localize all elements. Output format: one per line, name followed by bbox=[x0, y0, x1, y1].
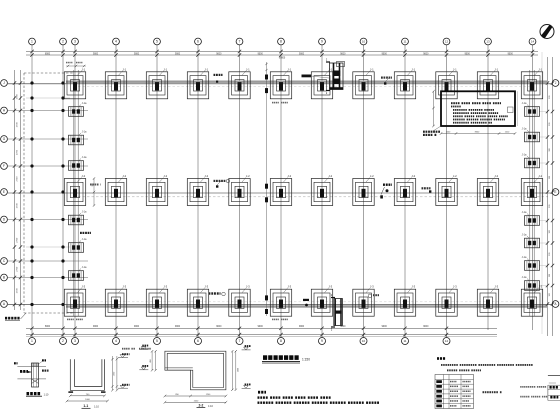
footing DJ-1 axis 7 row J bbox=[229, 67, 250, 99]
svg-text:9000: 9000 bbox=[216, 326, 222, 328]
wall line left outer bbox=[73, 70, 75, 316]
svg-text:J-2: J-2 bbox=[122, 174, 126, 178]
footing DJ-1 axis 9 row J bbox=[311, 67, 332, 99]
dimension line left bbox=[13, 70, 22, 310]
svg-text:J-1a: J-1a bbox=[82, 131, 87, 134]
svg-text:2700: 2700 bbox=[16, 237, 18, 243]
footing DJ-2 axis 4 row E bbox=[105, 174, 126, 206]
svg-text:1:10: 1:10 bbox=[94, 406, 99, 409]
footing DJ-3 axis 10 row A bbox=[353, 285, 374, 317]
svg-text:1: 1 bbox=[31, 40, 33, 44]
footing DJ-1 axis 10 row J bbox=[353, 67, 374, 99]
grid bubble axis 9 top bbox=[319, 38, 326, 45]
svg-text:2: 2 bbox=[62, 40, 64, 44]
svg-text:5: 5 bbox=[156, 40, 158, 44]
svg-text:10: 10 bbox=[362, 339, 366, 343]
svg-text:E: E bbox=[554, 190, 556, 194]
grid bubble axis 10 top bbox=[360, 38, 367, 45]
svg-text:99000: 99000 bbox=[279, 58, 286, 60]
grid line axis 8 bbox=[280, 45, 282, 337]
svg-text:J-1: J-1 bbox=[453, 67, 457, 71]
svg-text:4: 4 bbox=[115, 40, 117, 44]
grid line axis 10 bbox=[363, 45, 365, 337]
grid bubble axis 6 bottom bbox=[195, 335, 202, 345]
svg-text:9000: 9000 bbox=[382, 53, 388, 55]
svg-text:9000: 9000 bbox=[175, 53, 181, 55]
svg-text:9000: 9000 bbox=[382, 326, 388, 328]
svg-text:3: 3 bbox=[74, 40, 76, 44]
wall footing left 4 bbox=[69, 211, 88, 225]
svg-text:J-3: J-3 bbox=[328, 285, 332, 289]
footing DJ-3 axis 7 row A bbox=[229, 285, 250, 317]
svg-text:J-1a: J-1a bbox=[82, 156, 87, 159]
grid bubble axis 7 top bbox=[236, 38, 243, 45]
svg-text:J-1a: J-1a bbox=[522, 256, 527, 259]
svg-text:2700: 2700 bbox=[17, 176, 19, 182]
footing DJ-2 axis 5 row E bbox=[146, 174, 167, 206]
svg-text:J-1: J-1 bbox=[494, 67, 498, 71]
beam label row A near axis 8 left bbox=[209, 292, 226, 296]
annex dashed outline vertical bbox=[23, 73, 25, 313]
svg-text:J-1: J-1 bbox=[246, 67, 250, 71]
svg-text:J-1: J-1 bbox=[81, 67, 85, 71]
footing DJ-2 axis 9 row E bbox=[311, 174, 332, 206]
wall footing right 1 bbox=[522, 102, 540, 116]
beam label row J near axis 7 bbox=[214, 74, 223, 83]
svg-text:9: 9 bbox=[321, 40, 323, 44]
svg-text:2700: 2700 bbox=[17, 94, 19, 100]
notes block right bbox=[437, 357, 533, 371]
svg-text:J-3: J-3 bbox=[538, 285, 542, 289]
annex row line y219.5 bbox=[8, 219, 88, 221]
wall footing right 2 bbox=[522, 128, 540, 142]
svg-text:J-1: J-1 bbox=[287, 67, 291, 71]
svg-text:1:150: 1:150 bbox=[302, 358, 310, 362]
grid bubble axis 11 bottom bbox=[402, 335, 409, 345]
grid bubble axis 8 bottom bbox=[278, 335, 285, 345]
grid line axis 14 bbox=[532, 45, 534, 330]
equipment foundation leader note bbox=[423, 126, 441, 136]
grid line axis 2 bbox=[62, 45, 64, 337]
svg-text:9000: 9000 bbox=[216, 53, 222, 55]
svg-text:J-1: J-1 bbox=[328, 67, 332, 71]
svg-text:1: 1 bbox=[31, 339, 33, 343]
svg-text:9000: 9000 bbox=[299, 53, 305, 55]
svg-text:J-1: J-1 bbox=[163, 67, 167, 71]
svg-text:300: 300 bbox=[549, 123, 551, 126]
svg-text:J-1: J-1 bbox=[370, 67, 374, 71]
annex row line y139 bbox=[8, 138, 88, 140]
grid line axis 1 bbox=[31, 45, 33, 337]
footing DJ-2 axis 12 row E bbox=[436, 174, 457, 206]
svg-text:J-3: J-3 bbox=[246, 285, 250, 289]
svg-text:J-1a: J-1a bbox=[82, 102, 87, 105]
tie beam dashes row A bbox=[78, 301, 530, 303]
svg-text:13: 13 bbox=[486, 40, 490, 44]
grid bubble axis 12 bottom bbox=[443, 335, 450, 345]
footing DJ-1 axis 13 row J bbox=[477, 67, 498, 99]
grid bubble row D left bbox=[1, 216, 8, 223]
svg-text:12: 12 bbox=[445, 339, 449, 343]
grid bubble axis 1 top bbox=[29, 38, 36, 45]
svg-text:B: B bbox=[3, 276, 5, 280]
svg-text:2700: 2700 bbox=[17, 288, 19, 294]
wall band row A bbox=[66, 305, 547, 307]
beam label row E near axis 8 bbox=[214, 179, 230, 188]
svg-text:J-1: J-1 bbox=[411, 67, 415, 71]
grid bubble axis 5 bottom bbox=[154, 335, 161, 345]
footing DJ-2 axis 14 row E bbox=[521, 174, 542, 206]
svg-text:J-1a: J-1a bbox=[522, 154, 527, 157]
svg-text:9000: 9000 bbox=[134, 326, 140, 328]
wall line right inner bbox=[533, 70, 535, 316]
svg-text:J-1a: J-1a bbox=[522, 211, 527, 214]
svg-text:9000: 9000 bbox=[508, 53, 514, 55]
footing DJ-1 axis 14 row J bbox=[521, 67, 542, 99]
equipment foundation dimensions bbox=[432, 90, 517, 135]
anchor bolt detail title bbox=[26, 392, 49, 396]
apron leader bbox=[21, 313, 27, 319]
svg-text:J-1a: J-1a bbox=[82, 266, 87, 269]
grid bubble axis 4 top bbox=[113, 38, 120, 45]
footing DJ-3 axis 6 row A bbox=[187, 285, 208, 317]
svg-text:J-2: J-2 bbox=[538, 174, 542, 178]
grid bubble axis 7 bottom bbox=[236, 335, 243, 345]
svg-text:2700: 2700 bbox=[17, 149, 19, 155]
svg-text:8: 8 bbox=[280, 40, 282, 44]
svg-text:J-3: J-3 bbox=[370, 285, 374, 289]
footing DJ-2 axis 6 row E bbox=[187, 174, 208, 206]
grid line axis 11 bbox=[404, 45, 406, 337]
right overhang extension line bbox=[541, 52, 543, 334]
grid bubble row J right bbox=[552, 80, 559, 87]
svg-text:J-3: J-3 bbox=[411, 285, 415, 289]
svg-text:J-2: J-2 bbox=[411, 174, 415, 178]
footing DJ-3 axis 13 row A bbox=[477, 285, 498, 317]
grid bubble row E left bbox=[1, 189, 8, 196]
footing DJ-2 axis 8 row E bbox=[270, 174, 291, 206]
section detail 2-2 title bbox=[197, 403, 214, 408]
wall footing right 7 bbox=[522, 276, 540, 290]
dimension line bottom bbox=[26, 327, 497, 337]
svg-text:9000: 9000 bbox=[299, 326, 305, 328]
grid line axis 13 bbox=[487, 45, 489, 330]
grid line axis 7 bbox=[239, 45, 241, 337]
main title foundation plan bbox=[262, 355, 310, 363]
svg-text:300: 300 bbox=[549, 148, 551, 151]
wall footing left 2 bbox=[69, 131, 88, 145]
annex dashed outline bottom bbox=[24, 312, 74, 314]
svg-text:J-2: J-2 bbox=[163, 174, 167, 178]
dimension text right bbox=[549, 96, 551, 297]
svg-text:J-1: J-1 bbox=[122, 67, 126, 71]
grid bubble axis 2 bottom bbox=[60, 335, 67, 345]
svg-text:450: 450 bbox=[150, 359, 152, 362]
svg-text:14: 14 bbox=[531, 40, 535, 44]
beam label row J near axis 10 bbox=[381, 77, 392, 85]
footing DJ-1 axis 11 row J bbox=[394, 67, 415, 99]
grid bubble axis 9 bottom bbox=[319, 335, 326, 345]
svg-text:J-1a: J-1a bbox=[522, 234, 527, 237]
wall footing left 6 bbox=[69, 266, 88, 280]
svg-text:J-3: J-3 bbox=[163, 285, 167, 289]
footing DJ-3 axis 12 row A bbox=[436, 285, 457, 317]
anchor bolt detail bbox=[14, 359, 49, 387]
svg-text:300: 300 bbox=[549, 253, 551, 256]
footing DJ-3 axis 9 row A bbox=[311, 285, 332, 317]
dim text below footing A3 bbox=[67, 319, 83, 321]
grid line axis 12 bbox=[446, 45, 448, 337]
svg-text:9000: 9000 bbox=[258, 53, 264, 55]
title block fragment bbox=[520, 375, 560, 400]
footing DJ-1 axis 4 row J bbox=[105, 67, 126, 99]
svg-text:1:10: 1:10 bbox=[44, 393, 49, 396]
svg-text:6: 6 bbox=[197, 339, 199, 343]
footing DJ-2 axis 7 row E bbox=[229, 174, 250, 206]
footing axis3 dim marks bbox=[66, 62, 86, 67]
grid bubble axis 8 top bbox=[278, 38, 285, 45]
wall footing right 5 bbox=[522, 234, 540, 248]
footing DJ-3 axis 4 row A bbox=[105, 285, 126, 317]
svg-text:J-1a: J-1a bbox=[82, 211, 87, 214]
dimension line right bbox=[546, 57, 554, 336]
svg-text:9000: 9000 bbox=[175, 326, 181, 328]
svg-text:9000: 9000 bbox=[93, 326, 99, 328]
pit section bottom (axis 8) bbox=[331, 294, 343, 332]
grid bubble row G left bbox=[1, 136, 8, 143]
footing DJ-3 axis 5 row A bbox=[146, 285, 167, 317]
svg-text:F: F bbox=[3, 164, 5, 168]
footing DJ-1 axis 3 row J bbox=[64, 67, 85, 99]
svg-text:9000: 9000 bbox=[465, 53, 471, 55]
wall footing left 1 bbox=[69, 102, 88, 116]
section detail 1-1 bbox=[66, 353, 130, 402]
grid bubble row C left bbox=[1, 258, 8, 265]
svg-text:6: 6 bbox=[197, 40, 199, 44]
svg-text:10: 10 bbox=[362, 40, 366, 44]
svg-text:2700: 2700 bbox=[16, 266, 18, 272]
svg-text:J-3: J-3 bbox=[122, 285, 126, 289]
svg-text:9000: 9000 bbox=[423, 326, 429, 328]
svg-text:8000: 8000 bbox=[45, 53, 51, 55]
beam line row E bbox=[8, 192, 552, 194]
footing E3 side dim bbox=[92, 177, 95, 206]
grid bubble axis 4 bottom bbox=[113, 335, 120, 345]
pit label bottom bbox=[303, 299, 309, 307]
equipment foundation outline and notes bbox=[441, 91, 515, 126]
wall footing right 3 bbox=[522, 154, 540, 168]
svg-text:2700: 2700 bbox=[17, 203, 19, 209]
svg-text:J-1a: J-1a bbox=[522, 276, 527, 279]
svg-text:300: 300 bbox=[549, 176, 551, 179]
grid bubble row B left bbox=[1, 274, 8, 281]
footing DJ-3 axis 3 row A bbox=[64, 285, 85, 317]
annex row line y261 bbox=[8, 260, 88, 262]
svg-text:J-1a: J-1a bbox=[522, 128, 527, 131]
grid bubble axis 1 bottom bbox=[29, 335, 36, 345]
grid bubble axis 3 bottom bbox=[72, 335, 79, 345]
svg-text:4: 4 bbox=[115, 339, 117, 343]
extension lines right bbox=[539, 112, 547, 286]
svg-text:3: 3 bbox=[74, 339, 76, 343]
footing DJ-1 axis 5 row J bbox=[146, 67, 167, 99]
svg-text:8: 8 bbox=[280, 339, 282, 343]
grid bubble row A left bbox=[1, 301, 8, 308]
svg-text:9: 9 bbox=[321, 339, 323, 343]
svg-text:300: 300 bbox=[92, 184, 94, 187]
svg-text:9000: 9000 bbox=[340, 326, 346, 328]
wall footing left 5 bbox=[69, 238, 88, 252]
section detail 2-2 bbox=[139, 345, 250, 404]
svg-text:J-2: J-2 bbox=[328, 174, 332, 178]
pit top-right ledge bbox=[337, 62, 345, 67]
svg-text:9000: 9000 bbox=[258, 326, 264, 328]
wall footing right 4 bbox=[522, 211, 540, 225]
svg-text:J-2: J-2 bbox=[453, 174, 457, 178]
annex row line y166 bbox=[8, 165, 88, 167]
svg-text:9000: 9000 bbox=[340, 53, 346, 55]
svg-text:9000: 9000 bbox=[423, 53, 429, 55]
svg-text:7: 7 bbox=[239, 40, 241, 44]
svg-text:E: E bbox=[3, 190, 5, 194]
footing DJ-2 axis 11 row E bbox=[394, 174, 415, 206]
wall line left inner bbox=[77, 70, 79, 316]
footing DJ-1 axis 12 row J bbox=[436, 67, 457, 99]
grid line axis 9 bbox=[321, 45, 323, 337]
pit section top (axis 8) bbox=[326, 59, 343, 96]
svg-text:300: 300 bbox=[549, 96, 551, 99]
svg-text:8000: 8000 bbox=[45, 326, 51, 328]
footing DJ-2 axis 10 row E bbox=[353, 174, 374, 206]
svg-text:J-2: J-2 bbox=[370, 174, 374, 178]
svg-text:J-3: J-3 bbox=[494, 285, 498, 289]
grid bubble axis 10 bottom bbox=[360, 335, 367, 345]
beam label row E near axis 4 bbox=[90, 184, 92, 186]
beam label row E near axis 11 bbox=[422, 187, 432, 193]
grid bubble axis 12 top bbox=[443, 38, 450, 45]
svg-text:5: 5 bbox=[156, 339, 158, 343]
svg-text:J-3: J-3 bbox=[81, 285, 85, 289]
annex column dots bbox=[30, 81, 64, 306]
annex bottom label bbox=[5, 317, 20, 321]
dimension text top bbox=[45, 53, 514, 59]
wind column line mid-bay bbox=[265, 62, 268, 316]
grid line axis 4 bbox=[115, 45, 117, 337]
footing DJ-3 axis 14 row A bbox=[521, 285, 542, 317]
svg-text:J-2: J-2 bbox=[204, 174, 208, 178]
annex row line y277.5 bbox=[8, 277, 88, 279]
grid bubble axis 14 top bbox=[529, 38, 536, 45]
grid bubble axis 3 top bbox=[72, 38, 79, 45]
grid bubble row F left bbox=[1, 163, 8, 170]
svg-text:11: 11 bbox=[403, 40, 406, 44]
wall edge row A bbox=[8, 304, 552, 306]
svg-text:12: 12 bbox=[445, 40, 449, 44]
svg-text:1-1: 1-1 bbox=[83, 404, 88, 408]
notes block center bbox=[258, 391, 380, 404]
svg-text:300: 300 bbox=[549, 293, 551, 296]
section detail 1-1 title bbox=[82, 404, 100, 409]
svg-text:9000: 9000 bbox=[134, 53, 140, 55]
note text small right bbox=[139, 348, 140, 350]
svg-text:J-1a: J-1a bbox=[522, 102, 527, 105]
svg-text:J-1: J-1 bbox=[204, 67, 208, 71]
grid bubble row E right bbox=[552, 189, 559, 196]
svg-text:J-3: J-3 bbox=[204, 285, 208, 289]
svg-text:2600: 2600 bbox=[237, 368, 239, 372]
label JL-1a left wall bbox=[80, 232, 82, 234]
annex row line y110.5 bbox=[8, 110, 88, 112]
dimension text left bbox=[16, 94, 18, 294]
grid bubble axis 6 top bbox=[195, 38, 202, 45]
note text small left bbox=[122, 348, 123, 350]
legend table bbox=[435, 375, 474, 409]
annex minor row line y98 bbox=[26, 97, 70, 99]
footing DJ-1 axis 8 row J bbox=[270, 67, 291, 99]
svg-text:J-1: J-1 bbox=[538, 67, 542, 71]
legend caption bbox=[483, 391, 485, 393]
footing DJ-1 axis 6 row J bbox=[187, 67, 208, 99]
grid bubble row A right bbox=[552, 301, 559, 308]
annex minor row line y247 bbox=[26, 246, 70, 248]
grid bubble row H left bbox=[1, 107, 8, 114]
svg-text:2700: 2700 bbox=[17, 122, 19, 128]
wall edge row J bbox=[8, 83, 552, 85]
grid bubble row J left bbox=[1, 80, 8, 87]
footing DJ-2 axis 3 row E bbox=[64, 174, 85, 206]
footing DJ-3 axis 11 row A bbox=[394, 285, 415, 317]
grid line axis 6 bbox=[197, 45, 199, 337]
svg-text:J-3: J-3 bbox=[453, 285, 457, 289]
svg-text:300: 300 bbox=[549, 230, 551, 233]
grid bubble axis 11 top bbox=[402, 38, 409, 45]
grid bubble axis 5 top bbox=[154, 38, 161, 45]
svg-text:J-1a: J-1a bbox=[82, 238, 87, 241]
svg-text:J-3: J-3 bbox=[287, 285, 291, 289]
north arrow symbol bbox=[540, 25, 554, 39]
svg-text:2-2: 2-2 bbox=[199, 403, 204, 407]
dimension line top bbox=[26, 50, 538, 57]
svg-text:300: 300 bbox=[549, 274, 551, 277]
dim text below footing axis 8 bbox=[272, 102, 288, 104]
dimension text bottom bbox=[45, 326, 429, 328]
svg-text:1:10: 1:10 bbox=[208, 405, 213, 408]
footing DJ-3 axis 8 row A bbox=[270, 285, 291, 317]
svg-text:9000: 9000 bbox=[93, 53, 99, 55]
svg-text:2: 2 bbox=[62, 339, 64, 343]
svg-text:11: 11 bbox=[403, 339, 406, 343]
svg-text:7: 7 bbox=[239, 339, 241, 343]
tie beam dashes row J bbox=[78, 85, 530, 87]
svg-text:J-2: J-2 bbox=[287, 174, 291, 178]
wall line right outer bbox=[529, 70, 531, 316]
tie beam dashes row E bbox=[78, 196, 548, 198]
annex dashed outline top bbox=[24, 72, 74, 74]
beam label row A near axis 10 bbox=[368, 294, 379, 298]
svg-text:J-2: J-2 bbox=[81, 174, 85, 178]
wall band row J bbox=[66, 81, 547, 83]
grid line axis 3 bbox=[74, 45, 76, 337]
grid bubble axis 13 top bbox=[485, 38, 492, 45]
dim text below footing A8 bbox=[272, 319, 288, 321]
wall footing left 3 bbox=[69, 156, 88, 170]
grid bubble axis 2 top bbox=[60, 38, 67, 45]
pit label top bbox=[302, 75, 330, 79]
svg-text:300: 300 bbox=[549, 205, 551, 208]
svg-text:J-2: J-2 bbox=[246, 174, 250, 178]
wall footing right 6 bbox=[522, 256, 540, 270]
svg-text:J-2: J-2 bbox=[494, 174, 498, 178]
